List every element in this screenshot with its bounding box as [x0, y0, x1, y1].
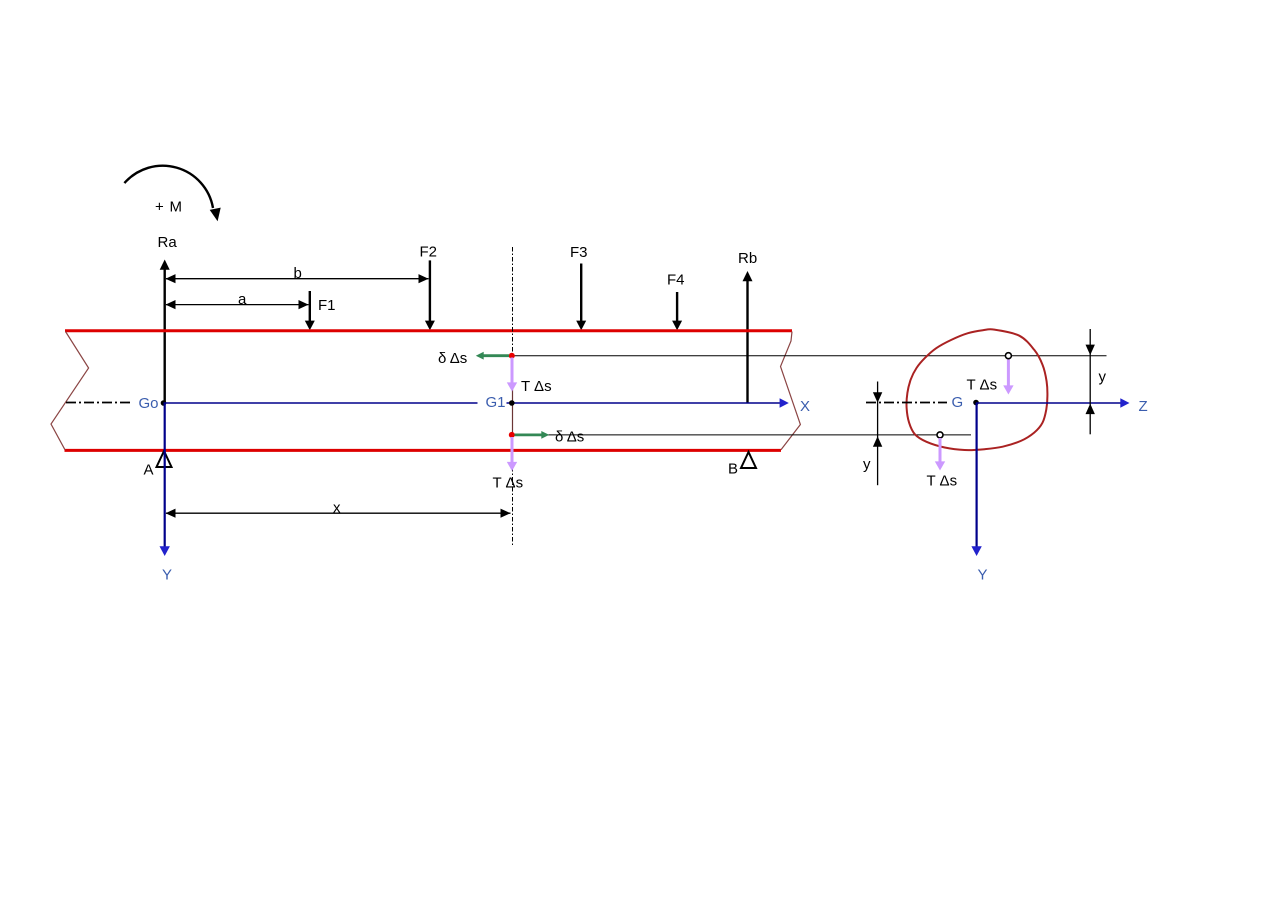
force F1: [305, 291, 336, 330]
shear flow arrow left (delta-s upper): [438, 350, 509, 367]
upper cut point red dot: [509, 353, 515, 359]
svg-text:T Δs: T Δs: [967, 377, 998, 394]
dimension b: [166, 265, 429, 283]
shear flow arrow right (delta-s lower): [515, 428, 585, 445]
svg-text:T Δs: T Δs: [521, 378, 552, 395]
svg-text:δ Δs: δ Δs: [555, 428, 584, 445]
svg-text:T Δs: T Δs: [927, 473, 958, 490]
dimension y right: [1086, 329, 1107, 434]
X axis arrowhead: [780, 398, 789, 408]
node G dot: [973, 400, 979, 406]
cross-section outline blob: [906, 329, 1047, 450]
section cut solid segment: [512, 356, 514, 435]
svg-text:a: a: [238, 291, 247, 308]
svg-text:Ra: Ra: [158, 234, 178, 251]
X axis line: [164, 402, 478, 404]
dimension y left: [863, 382, 882, 486]
svg-text:F1: F1: [318, 297, 336, 314]
svg-text:Z: Z: [1139, 398, 1148, 415]
svg-text:b: b: [294, 265, 302, 282]
svg-text:Go: Go: [139, 395, 159, 412]
shear arrow T-delta-s upper: [507, 358, 552, 395]
svg-text:G: G: [952, 394, 964, 411]
support A triangle: [157, 451, 172, 467]
Z axis: [976, 398, 1148, 415]
section cut dash-dot line: [512, 247, 514, 547]
svg-text:Y: Y: [978, 566, 988, 583]
shear arrow T-delta-s lower: [493, 437, 524, 491]
svg-text:Rb: Rb: [738, 250, 757, 267]
reaction force Ra: [158, 234, 178, 403]
svg-text:T Δs: T Δs: [493, 474, 524, 491]
svg-text:A: A: [144, 461, 154, 478]
svg-text:x: x: [333, 499, 341, 516]
upper stringer line: [513, 355, 1107, 357]
moment arc +M: [124, 166, 220, 221]
shear arrow T-delta-s section bottom: [927, 438, 958, 490]
svg-text:G1: G1: [486, 394, 506, 411]
svg-text:y: y: [1099, 368, 1107, 385]
svg-text:B: B: [728, 460, 738, 477]
right break line: [781, 332, 801, 450]
shear arrow T-delta-s section top: [967, 360, 1014, 395]
beam top fiber: [65, 329, 792, 332]
reaction force Rb: [738, 250, 757, 403]
node Go dot: [161, 400, 167, 406]
lower cut point red dot: [509, 432, 515, 438]
support B triangle: [741, 452, 756, 468]
svg-text:F4: F4: [667, 272, 685, 289]
Y axis left: [160, 403, 173, 583]
force F3: [570, 244, 588, 330]
svg-text:X: X: [800, 398, 810, 415]
Y axis right: [971, 403, 987, 583]
force F4: [667, 272, 685, 331]
left break line: [51, 332, 89, 450]
centroidal dash-dot before G: [866, 402, 947, 404]
svg-text:+ M: + M: [155, 199, 183, 216]
svg-text:F3: F3: [570, 244, 588, 261]
svg-text:y: y: [863, 456, 871, 473]
lower stringer line: [513, 434, 972, 436]
dimension x: [166, 499, 511, 518]
dimension a: [166, 291, 309, 309]
svg-text:δ Δs: δ Δs: [438, 350, 467, 367]
upper stringer circle on section: [1005, 353, 1011, 359]
svg-text:Y: Y: [162, 566, 172, 583]
force F2: [420, 244, 438, 331]
node G1 dot: [509, 400, 515, 406]
beam bottom fiber: [65, 449, 782, 452]
centroidal axis dash-dot left: [66, 402, 130, 404]
svg-text:F2: F2: [420, 244, 438, 261]
lower stringer circle on section: [937, 432, 943, 438]
